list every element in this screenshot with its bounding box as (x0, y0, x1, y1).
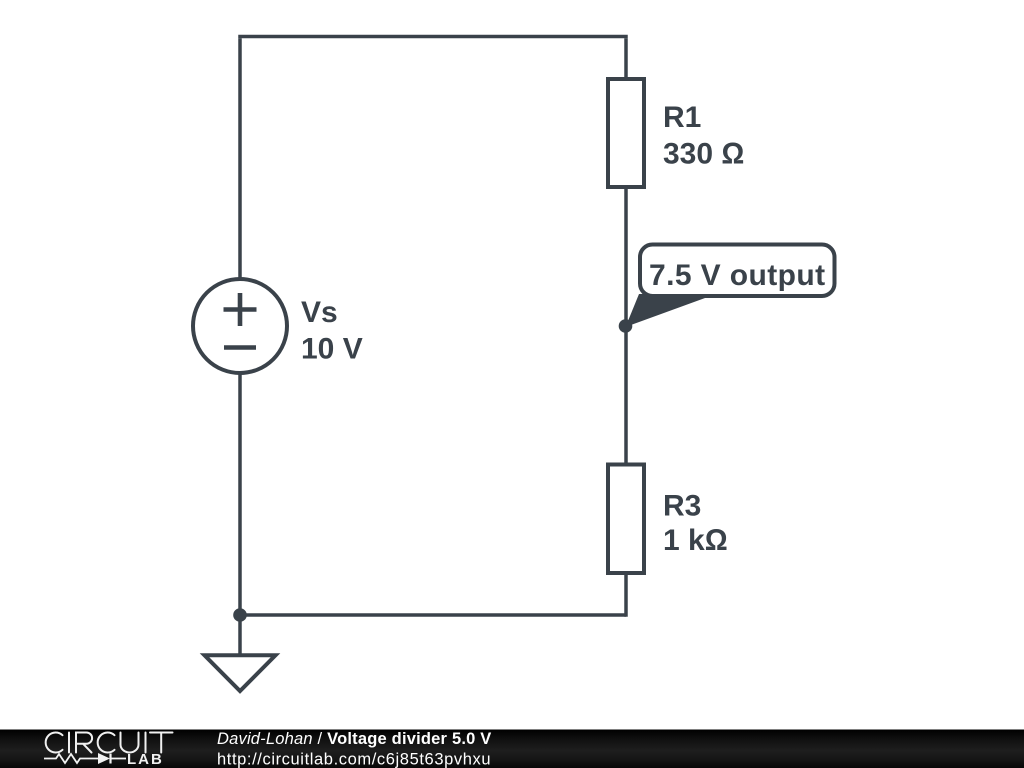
wire (624, 326, 628, 464)
svg-text:http://circuitlab.com/c6j85t63: http://circuitlab.com/c6j85t63pvhxu (217, 751, 491, 768)
wire (624, 187, 628, 326)
svg-text:Vs: Vs (301, 296, 338, 329)
wire (238, 35, 628, 39)
svg-text:330 Ω: 330 Ω (663, 138, 744, 171)
node junction dot (233, 608, 247, 622)
CircuitLab logo CIRCUIT (46, 733, 173, 753)
wire (238, 615, 242, 654)
svg-text:10 V: 10 V (301, 333, 363, 366)
CircuitLab logo zigzag wire and diode (44, 754, 126, 764)
resistor R1 (608, 79, 644, 187)
svg-text:LAB: LAB (127, 751, 164, 768)
svg-text:1 kΩ: 1 kΩ (663, 524, 728, 557)
svg-text:7.5 V output: 7.5 V output (649, 259, 825, 292)
footer watermark bar (0, 730, 1024, 768)
wire (238, 373, 242, 615)
wire (624, 38, 628, 78)
ground (205, 655, 276, 691)
node A output dot (619, 319, 633, 333)
wire (238, 613, 626, 617)
wire (238, 38, 242, 279)
wire (624, 571, 628, 617)
svg-text:David-Lohan / Voltage divider: David-Lohan / Voltage divider 5.0 V (217, 730, 492, 748)
svg-text:R1: R1 (663, 101, 701, 134)
resistor R3 (608, 465, 644, 574)
CircuitLab logo diode triangle (98, 753, 110, 764)
voltage source Vs (193, 279, 287, 373)
svg-text:R3: R3 (663, 490, 701, 523)
annotation callout 7.5 V output (626, 245, 835, 328)
